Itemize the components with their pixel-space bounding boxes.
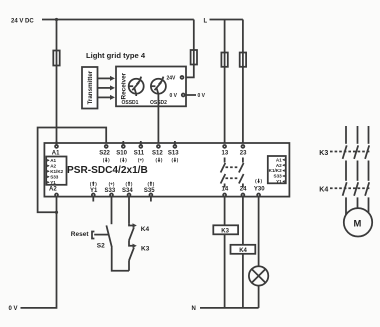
fuse F2 xyxy=(191,50,197,65)
wire S22 to A2/0V loop xyxy=(38,128,107,213)
wire N rail xyxy=(200,307,259,309)
wire L to fuse F3 to terminal 13 xyxy=(224,20,226,145)
wire below S2 xyxy=(112,248,129,271)
svg-text:S33: S33 xyxy=(50,174,59,179)
svg-text:K4: K4 xyxy=(141,226,150,233)
svg-text:Y1: Y1 xyxy=(90,188,98,194)
terminal S12 xyxy=(152,145,163,163)
motor M xyxy=(344,208,372,236)
svg-text:Y1: Y1 xyxy=(50,180,56,185)
svg-text:A1: A1 xyxy=(50,158,56,163)
wire A2 to 0V xyxy=(21,196,57,308)
terminal S33 xyxy=(105,181,116,196)
svg-text:K4: K4 xyxy=(239,248,247,254)
svg-text:S35: S35 xyxy=(144,188,155,194)
terminal S10 xyxy=(116,141,127,163)
wire 24VDC to fuse F1 to A1 xyxy=(56,20,58,145)
svg-text:K3: K3 xyxy=(141,245,150,252)
terminal S34 xyxy=(122,181,133,196)
svg-text:M: M xyxy=(354,218,362,229)
label PSR-SDC4/2x1/B xyxy=(67,165,148,176)
svg-text:S34: S34 xyxy=(122,188,133,194)
wire L to fuse F4 to terminal 23 xyxy=(242,20,244,145)
terminal Y1 xyxy=(90,181,98,201)
svg-text:Y1: Y1 xyxy=(276,179,282,184)
terminal 24 xyxy=(240,187,247,197)
contact K4 (feedback) xyxy=(129,223,149,240)
svg-text:24: 24 xyxy=(240,187,247,193)
terminal S22 xyxy=(99,145,110,163)
contactor K3 main contacts xyxy=(319,145,371,180)
terminal S35 xyxy=(144,181,155,201)
svg-text:0 V: 0 V xyxy=(198,93,206,99)
pin 0V of receiver xyxy=(170,93,185,99)
fuse F4 xyxy=(240,53,246,67)
svg-text:S22: S22 xyxy=(99,151,110,157)
net label N xyxy=(192,306,196,312)
svg-text:Reset: Reset xyxy=(71,231,90,238)
svg-text:PSR-SDC4/2x1/B: PSR-SDC4/2x1/B xyxy=(67,165,148,176)
svg-text:S13: S13 xyxy=(168,151,179,157)
svg-text:A2: A2 xyxy=(276,163,282,168)
relay contact 23-24 xyxy=(239,158,244,188)
svg-text:Transmitter: Transmitter xyxy=(87,70,94,104)
svg-text:S11: S11 xyxy=(134,151,145,157)
svg-text:K4: K4 xyxy=(319,186,328,193)
wire lamp to N xyxy=(258,286,260,308)
OSSD2 output transistor xyxy=(150,77,167,106)
pin 24V of receiver xyxy=(167,76,184,82)
contactor K4 main contacts xyxy=(319,182,371,214)
terminal S13 xyxy=(168,141,179,163)
svg-text:N: N xyxy=(192,306,196,312)
transmitter box xyxy=(82,67,98,109)
net label 0 V xyxy=(9,306,18,312)
svg-text:S33: S33 xyxy=(105,188,116,194)
terminal Y30 xyxy=(254,179,265,197)
svg-text:24 V DC: 24 V DC xyxy=(11,18,34,24)
svg-text:K3: K3 xyxy=(221,229,229,235)
svg-text:S12: S12 xyxy=(152,151,163,157)
wire below K3 contact xyxy=(128,261,130,271)
terminal S11 xyxy=(134,141,145,163)
receiver box xyxy=(116,67,186,107)
LED indicator box right xyxy=(268,156,286,184)
svg-text:(+): (+) xyxy=(138,158,144,163)
svg-text:Receiver: Receiver xyxy=(121,72,128,99)
wire K3 coil to N xyxy=(224,234,226,307)
wire 14 to K3 coil xyxy=(224,196,226,225)
wire S34 down to K4 contact xyxy=(128,196,130,223)
svg-text:14: 14 xyxy=(222,187,229,193)
svg-text:24V: 24V xyxy=(167,76,177,82)
fuse F3 xyxy=(221,53,227,67)
svg-text:A2: A2 xyxy=(49,186,57,192)
svg-text:Y30: Y30 xyxy=(254,187,265,193)
wire receiver 0V out xyxy=(186,94,196,96)
fuse F1 xyxy=(53,51,59,66)
svg-text:S33: S33 xyxy=(274,174,283,179)
wire L rail xyxy=(210,19,243,21)
relay contact 13-14 xyxy=(221,158,226,188)
svg-text:OSSD1: OSSD1 xyxy=(122,100,139,106)
wire phase L3 xyxy=(368,126,370,144)
node junction loop/A2 xyxy=(55,211,58,214)
wire phase L1 xyxy=(345,126,347,144)
node junction 24VDC/A1 xyxy=(55,18,58,21)
pushbutton S2 reset xyxy=(71,225,112,249)
safety relay U1 box PSR-SDC4/2x1/B xyxy=(44,143,289,197)
wire 24VDC rail xyxy=(42,19,194,21)
net label L xyxy=(204,18,208,24)
terminal A2 xyxy=(49,186,58,196)
svg-text:K1/K2: K1/K2 xyxy=(269,168,282,173)
svg-text:13: 13 xyxy=(222,151,229,157)
wire phase L2 xyxy=(357,126,359,144)
wire 24 to K4 coil xyxy=(242,196,244,245)
svg-text:A2: A2 xyxy=(50,163,56,168)
coil K3 xyxy=(213,225,238,234)
svg-text:K3: K3 xyxy=(319,150,328,157)
svg-text:K1/K2: K1/K2 xyxy=(50,169,63,174)
svg-text:Light grid type 4: Light grid type 4 xyxy=(86,51,146,60)
svg-text:S2: S2 xyxy=(97,242,105,249)
mechanical link dashes xyxy=(226,167,240,178)
label Light grid type 4 xyxy=(86,51,146,60)
net label 24 V DC xyxy=(11,18,34,24)
terminal 13 xyxy=(222,145,229,157)
indicator lamp H1 xyxy=(249,266,268,285)
wire 24VDC to fuse F2 to light grid 24V xyxy=(186,20,194,78)
svg-text:(+): (+) xyxy=(109,181,115,186)
terminal 14 xyxy=(222,187,229,197)
wire S33 down to reset switch xyxy=(111,196,113,224)
svg-text:0 V: 0 V xyxy=(170,93,178,99)
LED indicator box left xyxy=(46,157,66,185)
net label 0 V (light grid) xyxy=(198,93,206,99)
svg-text:A1: A1 xyxy=(52,151,60,157)
contact K3 (feedback) xyxy=(129,240,150,260)
light beam arrows xyxy=(98,76,116,100)
terminal 23 xyxy=(240,145,247,157)
svg-text:L: L xyxy=(204,18,208,24)
OSSD1 output transistor xyxy=(122,77,144,106)
svg-text:S10: S10 xyxy=(116,151,127,157)
coil K4 xyxy=(231,245,256,254)
svg-text:A1: A1 xyxy=(276,157,282,162)
terminal A1 xyxy=(52,141,60,157)
svg-text:23: 23 xyxy=(240,151,247,157)
wire Y30 to lamp xyxy=(258,196,260,266)
wire OSSD2 to S12 xyxy=(157,96,159,145)
svg-text:0 V: 0 V xyxy=(9,306,18,312)
wire K4 coil to N xyxy=(242,254,244,307)
